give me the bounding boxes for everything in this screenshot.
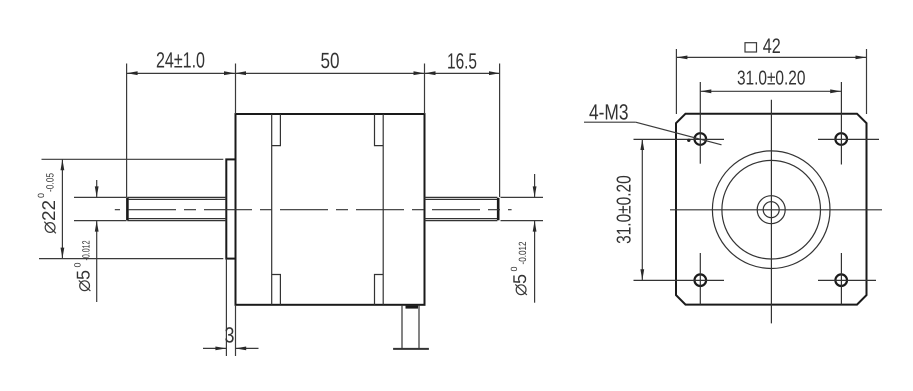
svg-text:0: 0 xyxy=(36,193,46,198)
horizontal centerline xyxy=(670,209,882,211)
hole TR xyxy=(835,133,847,145)
svg-text:42: 42 xyxy=(763,35,781,58)
phi5 front dimension line xyxy=(96,180,98,197)
shaft outer circle xyxy=(757,196,785,224)
sq42 extension lines xyxy=(675,49,677,114)
section line front cap xyxy=(271,114,273,305)
dim 31.0 vertical dimension line xyxy=(641,139,643,280)
svg-text:5: 5 xyxy=(509,274,530,284)
rear shaft end face xyxy=(497,198,500,221)
phi5 rear dimension line xyxy=(534,174,536,197)
front shaft xyxy=(127,197,226,220)
svg-text:4-M3: 4-M3 xyxy=(589,100,629,125)
phi5 front label xyxy=(73,240,94,291)
4-M3 leader dot xyxy=(687,139,690,142)
dim 31.0 vertical text xyxy=(614,175,636,244)
notch bottom-left xyxy=(272,275,281,305)
extension line 50/16.5 xyxy=(424,64,426,115)
svg-text:50: 50 xyxy=(321,48,340,73)
dim 3 extension lines xyxy=(225,259,227,356)
svg-text:24±1.0: 24±1.0 xyxy=(156,48,205,73)
extension line 16.5 right xyxy=(499,64,501,198)
svg-text:0: 0 xyxy=(509,266,519,271)
pilot boss circle xyxy=(722,160,821,259)
centerline side view xyxy=(115,209,512,211)
phi5 front extension lines xyxy=(74,196,127,198)
sq42 square symbol xyxy=(745,43,757,52)
flange square outline xyxy=(676,114,867,305)
rear shaft xyxy=(425,197,499,220)
cable exit stub xyxy=(393,305,429,349)
4-M3 leader xyxy=(636,122,722,145)
phi22 extension bottom xyxy=(39,258,223,260)
hole BL xyxy=(695,274,707,286)
shaft inner circle xyxy=(763,202,779,218)
svg-text:0: 0 xyxy=(73,262,83,267)
phi5 rear extension lines xyxy=(501,196,544,198)
svg-text:3: 3 xyxy=(225,323,235,348)
arrows top dims xyxy=(127,71,500,75)
front pilot boss xyxy=(226,159,235,258)
notch top-right xyxy=(375,114,384,146)
svg-text:16.5: 16.5 xyxy=(447,49,477,74)
outer face circle xyxy=(712,151,830,269)
vertical centerline xyxy=(770,100,772,324)
svg-text:31.0±0.20: 31.0±0.20 xyxy=(614,175,636,244)
dim 31.0 horizontal dimension line xyxy=(700,90,841,92)
front shaft end face xyxy=(126,198,129,221)
phi22 dimension line xyxy=(61,159,63,258)
svg-text:-0.012: -0.012 xyxy=(517,241,529,264)
svg-text:-0.012: -0.012 xyxy=(81,240,93,260)
svg-text:-0.05: -0.05 xyxy=(45,173,57,192)
dim 3 arrow tails xyxy=(203,347,226,349)
phi22 label xyxy=(36,173,59,233)
svg-text:5: 5 xyxy=(73,270,94,280)
cable stub connector bar xyxy=(406,306,419,309)
top dimension line xyxy=(127,72,500,74)
section line rear cap xyxy=(382,114,384,305)
4-M3 underline xyxy=(584,121,636,123)
extension line 24/50 middle xyxy=(235,64,237,115)
sq42 dimension line xyxy=(676,56,866,58)
hole BR xyxy=(835,274,847,286)
svg-text:22: 22 xyxy=(38,200,59,221)
svg-text:31.0±0.20: 31.0±0.20 xyxy=(737,67,806,89)
hole TL xyxy=(695,133,707,145)
notch top-left xyxy=(272,114,281,146)
phi22 extension top xyxy=(42,158,224,160)
notch bottom-right xyxy=(375,275,384,305)
motor body outline xyxy=(236,114,425,305)
extension line 24 left xyxy=(126,64,128,198)
phi5 rear label xyxy=(509,241,530,295)
